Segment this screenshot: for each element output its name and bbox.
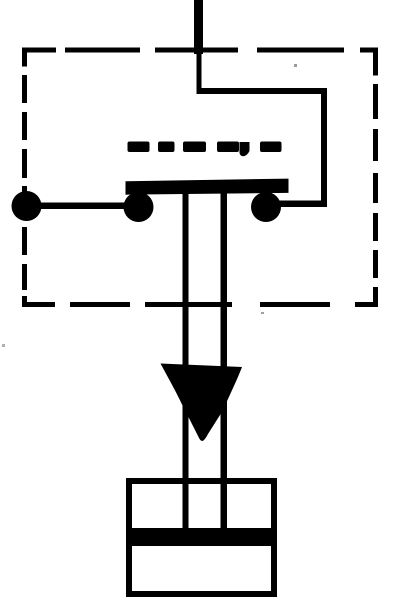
node: terminal dot on left enclosure edge [12, 191, 42, 221]
enclosure dashed box: left edge [22, 48, 27, 308]
contact bar: solid fixed contact bar [126, 179, 289, 195]
wire: connector into right contact terminal [278, 201, 327, 208]
node: right contact terminal dot [251, 192, 281, 222]
wire: top supply lead thin lower segment [197, 50, 202, 94]
piston housing: bottom rectangle outline [129, 481, 274, 594]
wire: horizontal lead from edge terminal to left contact dot [26, 203, 139, 210]
wire: left vertical actuator lead down to piston [183, 193, 189, 530]
wire: top supply lead vertical thick segment [194, 0, 203, 54]
enclosure dashed box: bottom edge [22, 302, 378, 307]
wire: right-side vertical drop [321, 88, 327, 207]
contact: thick dashed movable contact strip [128, 142, 282, 157]
piston: thick horizontal piston bar [126, 528, 277, 546]
node: left contact terminal dot [124, 192, 154, 222]
enclosure dashed box: right edge [373, 48, 378, 308]
scan speck [2, 344, 5, 347]
wire: horizontal run to the right [197, 88, 328, 94]
scan speck [261, 312, 264, 314]
wire: right vertical actuator lead down to piston [221, 193, 228, 530]
arrow: filled pressure direction arrowhead [161, 364, 243, 442]
scan speck [294, 64, 297, 67]
enclosure dashed box: top edge [22, 48, 378, 53]
